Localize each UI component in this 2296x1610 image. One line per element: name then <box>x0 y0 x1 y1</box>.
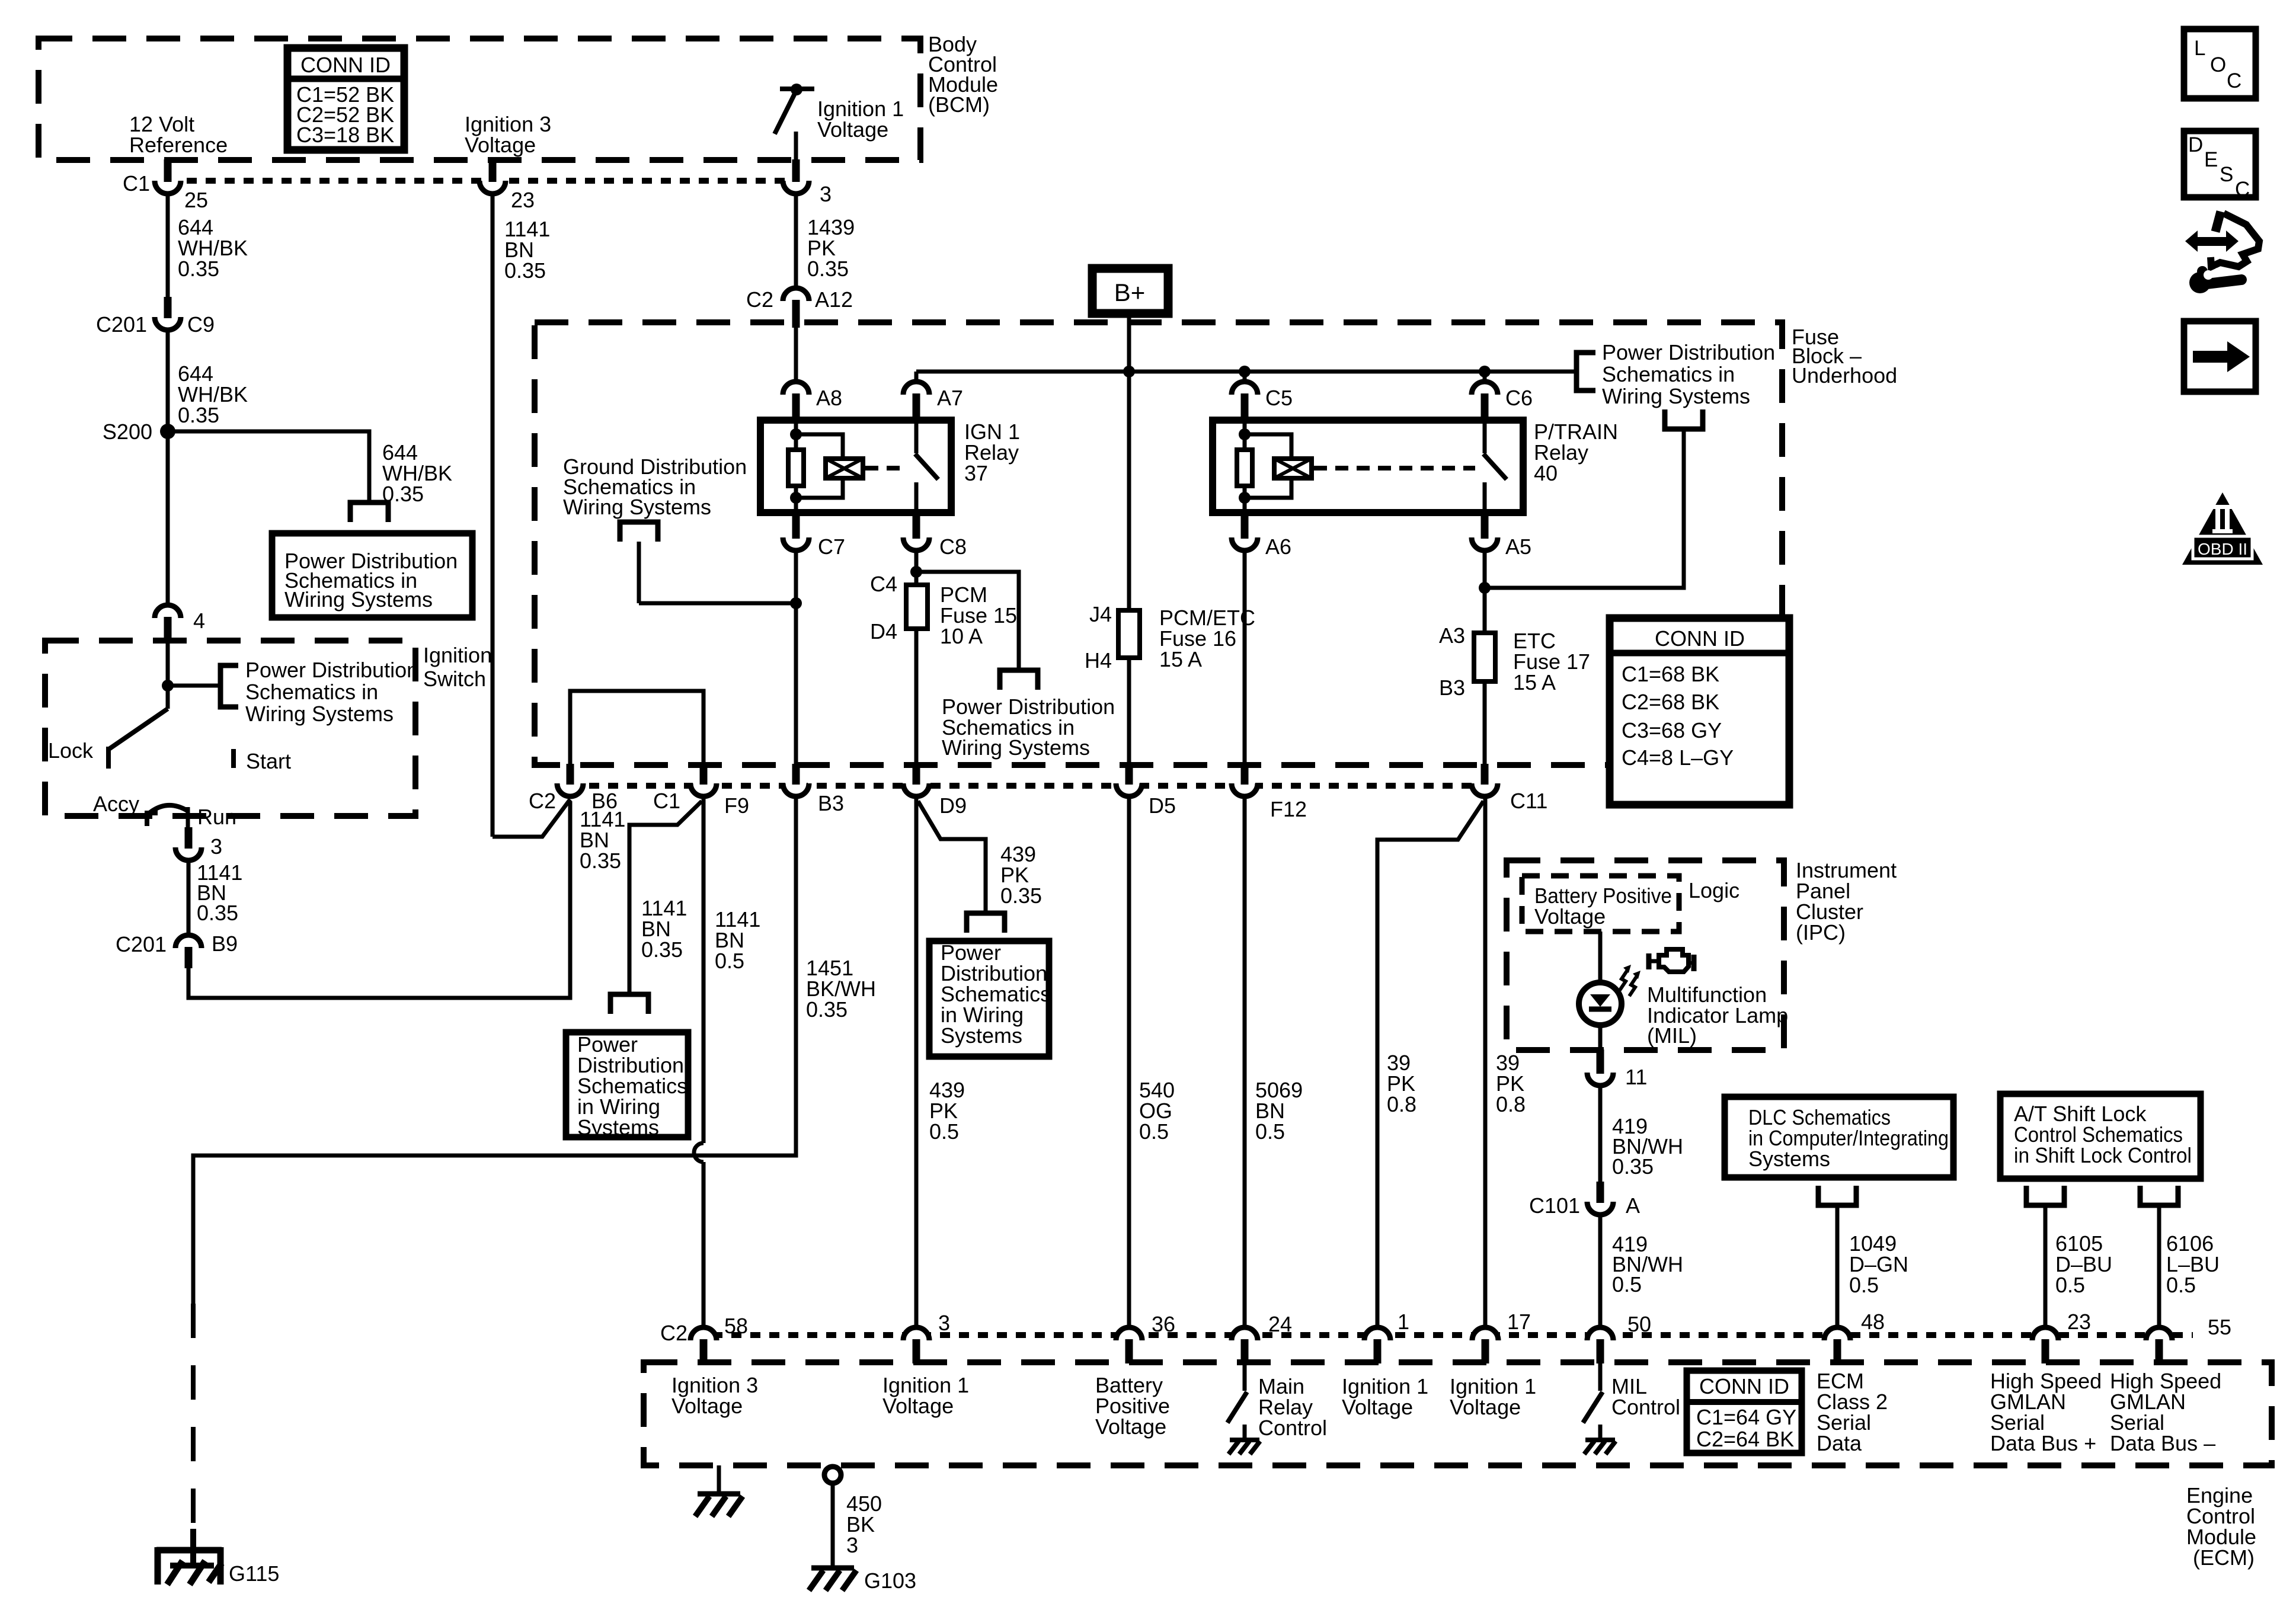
svg-text:48: 48 <box>1861 1310 1885 1334</box>
svg-text:3: 3 <box>210 834 222 859</box>
svg-text:C4=8 L–GY: C4=8 L–GY <box>1622 745 1734 770</box>
svg-text:CONN ID: CONN ID <box>1655 626 1745 651</box>
svg-text:Reference: Reference <box>129 133 228 157</box>
svg-text:C1: C1 <box>653 789 680 813</box>
svg-text:H4: H4 <box>1085 648 1112 673</box>
svg-text:A6: A6 <box>1265 534 1291 559</box>
svg-text:A3: A3 <box>1439 623 1465 648</box>
svg-text:Data: Data <box>1817 1431 1862 1455</box>
svg-text:J4: J4 <box>1089 602 1112 626</box>
svg-text:25: 25 <box>184 188 208 212</box>
svg-text:Data Bus +: Data Bus + <box>1990 1431 2096 1455</box>
svg-text:(MIL): (MIL) <box>1647 1023 1697 1048</box>
svg-text:1: 1 <box>1398 1310 1409 1334</box>
svg-text:D9: D9 <box>939 793 967 818</box>
svg-text:0.35: 0.35 <box>807 257 849 281</box>
svg-text:D5: D5 <box>1149 793 1176 818</box>
svg-text:Logic: Logic <box>1689 878 1739 902</box>
svg-text:G103: G103 <box>864 1569 916 1593</box>
svg-text:0.5: 0.5 <box>2055 1273 2085 1297</box>
svg-text:23: 23 <box>511 188 535 212</box>
svg-text:(BCM): (BCM) <box>928 92 990 117</box>
svg-text:23: 23 <box>2067 1310 2091 1334</box>
svg-text:C3=68 GY: C3=68 GY <box>1622 718 1722 742</box>
svg-text:C5: C5 <box>1265 386 1293 410</box>
svg-text:0.35: 0.35 <box>178 403 219 427</box>
svg-text:0.5: 0.5 <box>1139 1119 1169 1144</box>
svg-text:Wiring Systems: Wiring Systems <box>1602 384 1750 408</box>
svg-text:Wiring Systems: Wiring Systems <box>563 495 711 519</box>
svg-text:10 A: 10 A <box>940 624 983 648</box>
svg-text:C9: C9 <box>187 312 215 337</box>
svg-text:Power Distribution: Power Distribution <box>245 658 418 682</box>
svg-text:C11: C11 <box>1510 789 1547 813</box>
svg-text:CONN ID: CONN ID <box>1699 1374 1789 1398</box>
svg-text:F9: F9 <box>724 793 749 818</box>
svg-text:C101: C101 <box>1529 1193 1580 1218</box>
svg-text:Voltage: Voltage <box>817 117 888 142</box>
svg-text:C2=68 BK: C2=68 BK <box>1622 690 1719 714</box>
svg-text:O: O <box>2210 53 2226 76</box>
svg-text:0.35: 0.35 <box>504 258 546 283</box>
svg-text:3: 3 <box>846 1533 858 1557</box>
svg-text:C1=68 BK: C1=68 BK <box>1622 662 1719 686</box>
svg-text:C1: C1 <box>123 171 150 196</box>
svg-text:Data Bus –: Data Bus – <box>2110 1431 2215 1455</box>
svg-text:37: 37 <box>964 461 988 485</box>
svg-text:0.5: 0.5 <box>1849 1273 1879 1297</box>
svg-text:E: E <box>2204 148 2218 171</box>
svg-text:C201: C201 <box>96 312 147 337</box>
svg-text:0.35: 0.35 <box>806 997 848 1022</box>
svg-text:Switch: Switch <box>423 667 486 691</box>
svg-text:D: D <box>2188 133 2203 156</box>
svg-text:0.5: 0.5 <box>2166 1273 2196 1297</box>
svg-text:A8: A8 <box>816 386 842 410</box>
svg-text:B+: B+ <box>1114 279 1146 306</box>
svg-text:Systems: Systems <box>941 1023 1022 1048</box>
svg-text:3: 3 <box>820 182 832 206</box>
svg-text:OBD II: OBD II <box>2198 540 2247 558</box>
svg-text:Run: Run <box>197 805 236 829</box>
svg-text:C2: C2 <box>660 1321 687 1345</box>
svg-text:D4: D4 <box>870 619 897 644</box>
svg-text:C2: C2 <box>529 789 556 813</box>
svg-text:Wiring Systems: Wiring Systems <box>245 702 394 726</box>
svg-text:G115: G115 <box>229 1561 279 1586</box>
svg-text:Lock: Lock <box>48 738 94 763</box>
svg-text:Voltage: Voltage <box>1450 1395 1521 1419</box>
svg-text:0.35: 0.35 <box>1000 884 1042 908</box>
svg-text:L: L <box>2194 37 2205 60</box>
svg-text:C: C <box>2235 178 2250 201</box>
svg-text:A: A <box>1626 1193 1640 1218</box>
svg-text:C7: C7 <box>818 534 845 559</box>
svg-text:A5: A5 <box>1505 534 1531 559</box>
svg-text:Underhood: Underhood <box>1792 363 1897 388</box>
svg-text:(IPC): (IPC) <box>1796 920 1846 945</box>
svg-text:S: S <box>2220 163 2233 186</box>
svg-text:4: 4 <box>193 609 205 633</box>
svg-text:B9: B9 <box>212 932 238 956</box>
svg-text:Accy: Accy <box>93 792 139 816</box>
svg-text:0.35: 0.35 <box>580 849 621 873</box>
svg-text:0.35: 0.35 <box>382 482 424 506</box>
svg-text:C2: C2 <box>746 287 773 312</box>
svg-text:Voltage: Voltage <box>465 133 536 157</box>
svg-text:0.35: 0.35 <box>197 901 238 925</box>
svg-text:Ignition: Ignition <box>423 643 492 667</box>
svg-text:(ECM): (ECM) <box>2193 1545 2255 1570</box>
svg-text:C201: C201 <box>116 932 167 956</box>
svg-text:S200: S200 <box>103 420 152 444</box>
svg-text:0.8: 0.8 <box>1387 1092 1416 1116</box>
svg-text:C2=64 BK: C2=64 BK <box>1696 1427 1794 1451</box>
svg-text:CONN ID: CONN ID <box>300 53 391 77</box>
svg-text:24: 24 <box>1268 1312 1292 1336</box>
svg-text:A7: A7 <box>937 386 963 410</box>
svg-text:C: C <box>2227 69 2241 92</box>
svg-text:Systems: Systems <box>577 1115 659 1140</box>
svg-text:Control: Control <box>1258 1416 1327 1440</box>
svg-text:55: 55 <box>2208 1315 2231 1339</box>
svg-text:Voltage: Voltage <box>671 1394 743 1418</box>
svg-text:0.35: 0.35 <box>178 257 219 281</box>
svg-text:17: 17 <box>1507 1310 1531 1334</box>
svg-text:Power Distribution: Power Distribution <box>1602 340 1775 364</box>
svg-text:11: 11 <box>1625 1065 1647 1089</box>
svg-text:Start: Start <box>246 749 291 773</box>
svg-text:C4: C4 <box>870 572 897 596</box>
svg-text:0.5: 0.5 <box>929 1119 959 1144</box>
svg-text:0.5: 0.5 <box>1255 1119 1285 1144</box>
svg-text:15 A: 15 A <box>1159 647 1202 671</box>
svg-text:C6: C6 <box>1505 386 1533 410</box>
svg-text:Voltage: Voltage <box>882 1394 954 1418</box>
svg-text:Systems: Systems <box>1748 1147 1830 1171</box>
svg-text:B3: B3 <box>1439 676 1465 700</box>
svg-text:Schematics in: Schematics in <box>245 680 378 704</box>
svg-text:3: 3 <box>938 1311 950 1335</box>
svg-text:0.8: 0.8 <box>1496 1092 1526 1116</box>
svg-text:0.5: 0.5 <box>1612 1272 1642 1297</box>
svg-text:50: 50 <box>1627 1312 1651 1336</box>
svg-text:15 A: 15 A <box>1513 670 1556 694</box>
svg-text:40: 40 <box>1534 461 1558 485</box>
svg-text:C1=64 GY: C1=64 GY <box>1696 1405 1796 1429</box>
svg-text:58: 58 <box>724 1314 748 1338</box>
svg-text:Voltage: Voltage <box>1342 1395 1413 1419</box>
svg-text:Wiring Systems: Wiring Systems <box>284 587 433 612</box>
svg-text:C3=18 BK: C3=18 BK <box>296 123 394 147</box>
svg-text:Voltage: Voltage <box>1095 1414 1166 1439</box>
svg-text:C8: C8 <box>939 534 967 559</box>
svg-text:0.35: 0.35 <box>641 937 683 962</box>
svg-text:Control: Control <box>1611 1395 1680 1419</box>
svg-text:A12: A12 <box>815 287 853 312</box>
svg-text:36: 36 <box>1152 1312 1175 1336</box>
svg-text:B3: B3 <box>818 791 844 815</box>
svg-text:F12: F12 <box>1270 797 1307 821</box>
svg-text:0.5: 0.5 <box>715 949 744 973</box>
svg-text:0.35: 0.35 <box>1612 1154 1654 1179</box>
svg-text:in Shift Lock Control: in Shift Lock Control <box>2014 1143 2192 1167</box>
svg-text:Wiring Systems: Wiring Systems <box>942 735 1090 760</box>
svg-text:Voltage: Voltage <box>1534 904 1606 929</box>
svg-text:Schematics in: Schematics in <box>1602 362 1735 386</box>
